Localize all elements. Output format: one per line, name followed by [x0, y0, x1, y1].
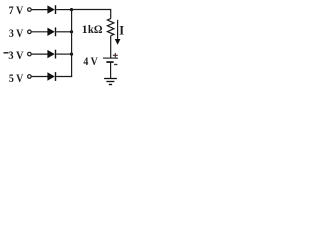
- wire terminal 4 to diode D4: [32, 76, 48, 78]
- wire D2 to bus: [56, 31, 71, 33]
- top wire bus to resistor: [72, 10, 111, 19]
- wire terminal 1 to diode D1: [32, 9, 48, 11]
- wire terminal 3 to diode D3: [32, 53, 48, 55]
- wire terminal 2 to diode D2: [32, 31, 48, 33]
- terminal circle input 3: [28, 52, 32, 56]
- junction dot node 2: [70, 30, 73, 33]
- terminal circle input 2: [28, 30, 32, 34]
- terminal circle input 1: [28, 8, 32, 12]
- svg-text:7 V: 7 V: [9, 3, 24, 17]
- svg-text:4 V: 4 V: [83, 56, 97, 68]
- resistor R 1 kOhm: [107, 19, 114, 36]
- bus wire (vertical): [71, 10, 73, 78]
- svg-text:3 V: 3 V: [8, 48, 24, 62]
- diode D2: [47, 27, 56, 36]
- diode D4: [47, 72, 56, 81]
- wire D3 to bus: [56, 53, 71, 55]
- ground: [104, 79, 117, 85]
- current arrow I: [115, 20, 121, 45]
- wire D1 to bus: [56, 9, 71, 11]
- diode D1: [47, 5, 56, 14]
- wire D4 to bus corner: [56, 76, 72, 78]
- svg-text:1: 1: [82, 22, 88, 36]
- label -3 V (input 3): [4, 52, 9, 53]
- terminal circle input 4: [28, 75, 32, 79]
- junction dot node 3: [70, 53, 73, 56]
- svg-text:5 V: 5 V: [9, 71, 24, 85]
- battery V1 4 V: [103, 53, 118, 65]
- svg-text:I: I: [119, 24, 124, 38]
- wire battery to ground: [110, 63, 112, 78]
- diode D3: [47, 50, 56, 59]
- svg-text:3 V: 3 V: [9, 26, 24, 40]
- junction dot node 1: [70, 8, 73, 11]
- wire resistor to battery: [110, 36, 112, 58]
- svg-text:kΩ: kΩ: [88, 22, 103, 36]
